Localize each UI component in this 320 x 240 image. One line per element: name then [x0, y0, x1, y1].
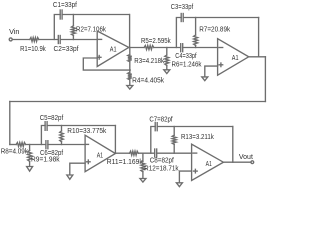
capacitor C6: [46, 141, 48, 149]
resistor R12: [141, 153, 145, 178]
resistor R4: [128, 70, 132, 85]
svg-text:C7=82pf: C7=82pf: [149, 116, 172, 123]
wire feedback down to op-amp 3 output: [114, 126, 116, 154]
op-amp U2 A1 stage 2: [218, 39, 249, 75]
label R4 value: [132, 78, 164, 85]
wire op-amp 2 plus to ground: [205, 66, 218, 77]
op-amp 3 minus sign: [85, 143, 88, 145]
resistor R5: [144, 46, 154, 50]
svg-text:R7=20.89k: R7=20.89k: [199, 26, 230, 33]
label C8 value: [150, 157, 174, 164]
label R5 value: [141, 38, 171, 45]
op-amp 3 plus sign: [87, 160, 91, 164]
label R10 value: [67, 128, 106, 135]
svg-text:A1: A1: [206, 159, 212, 168]
op-amp 1 minus sign: [98, 38, 101, 40]
wire R1 to C2 (node A): [39, 39, 59, 41]
label C2 value: [54, 46, 79, 53]
wire feedback down to op-amp 2 output: [258, 18, 260, 57]
label C6 value: [40, 150, 63, 157]
resistor R10: [60, 126, 64, 145]
svg-text:R8=4.09k: R8=4.09k: [1, 149, 29, 156]
label R13 value: [181, 134, 214, 141]
op-amp 4 plus sign: [194, 169, 198, 173]
op-amp U4 A1 stage 4: [192, 144, 224, 180]
wire node C up to C5: [41, 126, 45, 145]
capacitor C1: [60, 10, 62, 19]
wire R11 to C8 (node D): [138, 152, 154, 154]
label R7 value: [199, 26, 230, 33]
svg-text:R9=1.98k: R9=1.98k: [31, 157, 60, 164]
svg-text:C2=33pf: C2=33pf: [54, 46, 79, 53]
svg-text:R10=33.775k: R10=33.775k: [67, 128, 106, 135]
ground arrow below R4: [127, 86, 133, 90]
svg-text:A1: A1: [110, 45, 117, 54]
op-amp 2 minus sign: [219, 47, 223, 49]
wire R8 to C6 (node C): [26, 144, 46, 146]
wire op-amp 2 output right: [249, 56, 266, 58]
capacitor C3: [181, 14, 183, 22]
svg-text:C3=33pf: C3=33pf: [171, 4, 193, 11]
capacitor C4: [181, 44, 183, 52]
wire C2 to op-amp 1 inverting input: [60, 39, 97, 41]
label R12 value: [144, 166, 179, 173]
label A1 stage1: [110, 45, 117, 54]
label A1 stage2: [232, 53, 239, 62]
wire op-amp 4 output to Vout: [223, 161, 251, 163]
label C3 value: [171, 4, 193, 11]
resistor R6: [165, 48, 169, 70]
label A1 stage4: [206, 159, 212, 168]
node Vout output terminal: [251, 161, 254, 164]
label C1 value: [53, 2, 77, 9]
wire to R8: [10, 144, 16, 146]
op-amp 4 minus sign: [193, 152, 197, 154]
resistor R3: [128, 55, 132, 62]
resistor R11: [130, 151, 139, 155]
wire feedback down to op-amp 4 output: [232, 127, 234, 163]
wire op-amp 1 plus input loop: [83, 58, 130, 70]
label R1 value: [20, 46, 46, 53]
wire C3 to output vertical: [183, 17, 258, 19]
resistor R9: [28, 145, 32, 167]
node Vin input terminal: [9, 38, 12, 41]
wire node D up to C7: [151, 127, 155, 154]
svg-text:R5=2.595k: R5=2.595k: [141, 38, 171, 45]
svg-text:R1=10.9k: R1=10.9k: [20, 46, 46, 53]
wire C5 to output vertical: [47, 125, 115, 127]
wire node A up to C1: [54, 15, 60, 40]
label R3 value: [134, 58, 164, 65]
wire R3 to junction: [129, 62, 131, 70]
svg-text:R13=3.211k: R13=3.211k: [181, 134, 214, 141]
svg-text:C5=82pf: C5=82pf: [40, 115, 64, 122]
wire return line across page: [10, 101, 266, 103]
resistor R1: [30, 38, 39, 42]
wire op-amp 4 plus to ground: [179, 171, 191, 183]
wire C7 to output vertical: [157, 126, 233, 128]
svg-text:Vin: Vin: [9, 29, 20, 36]
wire return down left edge: [9, 102, 11, 145]
resistor R13: [172, 127, 176, 154]
capacitor C8: [155, 149, 157, 157]
svg-text:R4=4.405k: R4=4.405k: [132, 78, 164, 85]
label R9 value: [31, 157, 60, 164]
capacitor C7: [155, 123, 157, 131]
wire Vin to R1: [12, 39, 29, 41]
ground arrow at op-amp 4 plus: [176, 183, 182, 187]
label R2 value: [76, 27, 106, 34]
svg-text:A1: A1: [97, 150, 103, 159]
op-amp 1 plus sign: [97, 56, 101, 60]
resistor R8: [16, 143, 25, 147]
ground arrow below R12: [140, 179, 146, 183]
wire feedback down to op-amp 1 output: [129, 15, 131, 48]
capacitor C2: [58, 36, 60, 44]
svg-text:R12=18.71k: R12=18.71k: [144, 166, 179, 173]
wire output down right edge: [264, 57, 266, 102]
svg-text:R3=4.218k: R3=4.218k: [134, 58, 164, 65]
wire output to R3: [129, 47, 131, 54]
svg-text:C4=33pf: C4=33pf: [175, 53, 196, 60]
svg-text:C8=82pf: C8=82pf: [150, 157, 174, 164]
svg-text:Vout: Vout: [239, 154, 253, 161]
label R8 value: [1, 149, 29, 156]
label C7 value: [149, 116, 172, 123]
label C5 value: [40, 115, 64, 122]
ground arrow at op-amp 2 plus: [202, 77, 208, 81]
wire C1 to output vertical: [62, 14, 129, 16]
label R6 value: [172, 62, 202, 69]
wire op-amp 3 plus to ground: [70, 163, 85, 175]
label C4 value: [175, 53, 196, 60]
svg-text:R2=7.106k: R2=7.106k: [76, 27, 106, 34]
wire C6 to op-amp 3 inverting input: [48, 144, 85, 146]
ground arrow below R9: [27, 167, 33, 172]
wire R5 to C4 (node B): [154, 47, 181, 49]
ground arrow at op-amp 3 plus: [67, 175, 73, 179]
label A1 stage3: [97, 150, 103, 159]
op-amp U1 A1 stage 1: [97, 31, 129, 67]
op-amp U3 A1 stage 3: [85, 135, 115, 172]
svg-text:R6=1.246k: R6=1.246k: [172, 62, 202, 69]
label R11 value: [107, 159, 143, 166]
wire node B up to C3: [176, 18, 181, 48]
resistor R7: [194, 18, 198, 48]
op-amp 2 plus sign: [219, 63, 223, 67]
svg-text:R11=1.169k: R11=1.169k: [107, 159, 143, 166]
wire C4 to op-amp 2 inverting input: [183, 47, 218, 49]
wire op-amp3 output to R11: [115, 152, 129, 154]
svg-text:A1: A1: [232, 53, 239, 62]
ground arrow below R6: [164, 70, 170, 74]
capacitor C5: [45, 122, 47, 131]
wire C8 to op-amp 4 inverting input: [157, 152, 192, 154]
wire op-amp1 output to R5: [129, 47, 144, 49]
svg-text:C1=33pf: C1=33pf: [53, 2, 77, 9]
resistor R2: [71, 15, 75, 40]
label Vout: [239, 154, 253, 161]
label Vin: [9, 29, 20, 36]
